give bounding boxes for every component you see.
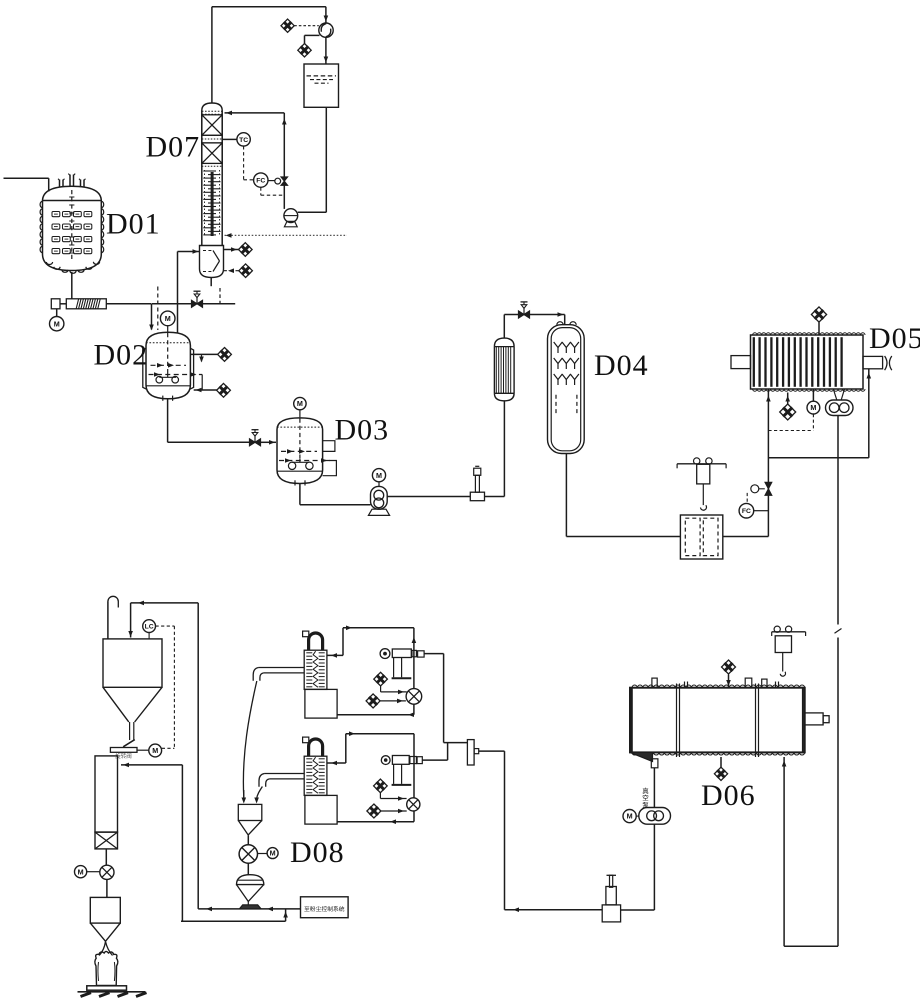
gear pump P2 <box>371 486 388 509</box>
wire: to product hopper <box>106 879 108 897</box>
wire: condenser to reflux tank <box>325 37 327 63</box>
inlet duct <box>259 667 305 669</box>
upper diamonds and blower <box>374 672 388 686</box>
wire: lower dipleg <box>257 787 263 799</box>
control valve CV1 <box>281 177 288 181</box>
diamond vent R2 (dashed) <box>224 270 239 272</box>
inlet duct <box>264 773 304 775</box>
wire: vapor inlet to reboiler <box>178 251 200 253</box>
dust control box <box>301 897 349 918</box>
pallet base <box>87 986 127 990</box>
wire: valve to collector <box>247 863 249 875</box>
wire: D02 to D03 with globe valve <box>168 441 250 443</box>
heat exchanger E1 (shell and tube) <box>494 338 514 347</box>
svg-text:泵: 泵 <box>642 801 649 809</box>
vacuum trap flask <box>607 874 617 876</box>
wire: upper unit gas loop <box>327 654 343 656</box>
svg-text:M: M <box>165 314 171 323</box>
wire: dotted feed line into D07 <box>225 234 348 236</box>
svg-text:至粉尘控制系统: 至粉尘控制系统 <box>304 905 345 913</box>
D08 small hopper <box>238 804 261 820</box>
wire: feed line into D01 <box>4 177 49 179</box>
wire: long return to silo <box>197 603 199 909</box>
flow meter FI <box>470 492 484 501</box>
svg-text:M: M <box>627 812 633 821</box>
reactor D01 vessel <box>43 186 102 270</box>
silo vent gooseneck <box>107 602 109 639</box>
D04 internals <box>557 348 559 354</box>
wire: hopper to X valve <box>247 836 249 845</box>
dryer D06 body <box>630 688 805 753</box>
reactor D03 vessel <box>277 418 323 484</box>
column D07 shell <box>202 103 222 111</box>
D06 top diamond <box>728 675 730 688</box>
wire: to heat exchanger E1 <box>485 496 505 498</box>
wire + diamond below condenser <box>305 34 320 36</box>
svg-text:D05: D05 <box>869 322 920 355</box>
wire: conveying return line <box>131 602 199 604</box>
D01 agitator shaft <box>71 190 73 259</box>
instrument TC <box>222 138 237 140</box>
svg-text:空: 空 <box>642 793 649 802</box>
wire: riser top return <box>121 764 182 766</box>
D07 mid band <box>202 135 222 143</box>
wire: filter box to D05 <box>723 536 769 538</box>
diamond vent R1 <box>224 249 239 251</box>
wire: reboiler drain line with globe valve <box>152 303 235 305</box>
D03 level dashes <box>281 450 317 452</box>
svg-text:LC: LC <box>145 624 154 631</box>
wire: feeder discharge to D02 <box>106 303 151 305</box>
collection box <box>305 689 337 718</box>
upper unit fan/motor <box>380 649 390 659</box>
finned cooler column <box>304 756 327 795</box>
svg-text:FC: FC <box>742 508 751 515</box>
reflux tank <box>304 64 339 107</box>
svg-text:M: M <box>54 319 60 328</box>
wire: D06 right bottom to blower line <box>783 757 785 946</box>
wire: D05 feed riser with control valve <box>767 390 769 537</box>
ground line <box>78 991 146 993</box>
wire: reflux to column top <box>283 113 285 177</box>
D05 motor M <box>812 389 814 401</box>
wire: D04 bottom outlet to filter box <box>565 454 567 537</box>
D08 collector pot <box>237 875 264 885</box>
D06 discharge chute <box>630 752 653 761</box>
svg-text:M: M <box>152 746 158 755</box>
svg-text:D01: D01 <box>106 208 161 241</box>
wire: tank to reflux pump <box>325 107 327 212</box>
wire: to rotary valve <box>105 849 107 865</box>
U-bend pipe on top <box>309 739 323 756</box>
reflux pump P1 <box>284 209 298 223</box>
product hopper <box>90 897 120 923</box>
wire: chute to vacuum pump <box>653 768 655 808</box>
wire: D02 bottom outlet <box>167 399 169 442</box>
D05 shell scallops <box>753 333 865 391</box>
svg-text:D03: D03 <box>335 414 390 447</box>
wire + diamond A on D02 <box>190 353 217 355</box>
wire: blower down line (long) <box>837 416 839 625</box>
wire: lower fan discharge <box>422 759 447 761</box>
svg-text:D06: D06 <box>701 779 756 812</box>
D02 jacket brackets <box>143 348 146 389</box>
collection box <box>305 795 337 824</box>
wire: pump discharge through control valve <box>283 185 285 209</box>
wire: upper dipleg curve <box>243 681 256 798</box>
reboiler of D07 <box>200 246 224 278</box>
D02 impeller <box>167 372 169 377</box>
D05 internal tubes <box>753 337 755 387</box>
reactor D02 vessel <box>146 332 190 399</box>
lower diamonds and blower <box>374 779 388 793</box>
D02 agitator motor M <box>160 311 175 326</box>
D01 top nozzles <box>59 180 61 188</box>
D05 bottom diamond <box>787 393 789 405</box>
D03 agitator motor M <box>294 397 306 409</box>
wire: lower unit gas loop <box>327 762 346 764</box>
product bag <box>99 942 112 956</box>
control valve CV2 <box>765 482 772 489</box>
evaporator D05 body <box>751 335 864 389</box>
diamond on condenser vent <box>294 25 319 27</box>
plate filter box <box>680 515 722 559</box>
U-bend pipe on top <box>309 633 323 650</box>
wire: recycle to right nozzle <box>768 457 868 459</box>
wire: upper fan discharge <box>424 653 444 655</box>
wire: vacuum pump to trap <box>653 824 655 910</box>
svg-text:M: M <box>78 867 84 876</box>
D07 packing X section 2 <box>202 143 222 164</box>
rotary valve (X circle) <box>100 865 114 879</box>
D06 top nozzles <box>652 678 657 688</box>
condenser C1 <box>319 23 333 37</box>
lower unit fan/motor <box>381 756 390 765</box>
diverter X-box <box>95 832 118 849</box>
svg-text:真: 真 <box>642 786 649 795</box>
D07 top dotted band <box>202 110 222 112</box>
wire: vacuum header down to trap <box>479 750 505 752</box>
wire: D03 bottom outlet <box>299 484 301 505</box>
svg-text:D07: D07 <box>146 131 201 164</box>
column D04 (jacketed) <box>548 325 585 454</box>
roots blower under D05 <box>833 389 837 400</box>
svg-text:M: M <box>376 471 382 480</box>
svg-text:D04: D04 <box>594 349 649 382</box>
D01 jacket scallops <box>40 201 104 273</box>
rotary feeder <box>123 740 135 747</box>
wire: to damper <box>444 742 468 744</box>
D06 internal baffles <box>676 684 678 758</box>
vacuum pump (roots) of D06 <box>623 810 636 823</box>
D07 packing X section 1 <box>202 115 222 136</box>
D08 rotary valve (X circle) <box>239 845 257 863</box>
wire: D01 bottom outlet <box>71 272 73 299</box>
wire: E1 top to valve to D04 <box>503 315 505 339</box>
inline damper <box>467 740 474 765</box>
wire + diamond B on D02 <box>194 389 217 391</box>
D03 impeller <box>299 459 301 462</box>
D03 jacket nozzle boxes <box>323 441 335 452</box>
svg-text:M: M <box>297 399 303 408</box>
silo <box>103 639 162 687</box>
D07 internal tray/coil section <box>211 172 214 236</box>
D06 right shaft stub <box>805 713 823 725</box>
D01 internal coils <box>52 212 60 217</box>
instrument FC2 <box>739 503 754 518</box>
hoist trolley over filter box <box>677 463 726 465</box>
wire: reboiler bottom stubs <box>210 278 212 287</box>
D02 liquid level dashes <box>151 364 187 366</box>
wire: from D02 top up to reboiler <box>177 252 179 334</box>
instrument FC <box>254 173 268 187</box>
D05 left nozzle <box>731 356 751 369</box>
svg-text:FC: FC <box>256 178 265 185</box>
D06 bottom diamond <box>720 757 722 767</box>
svg-text:D02: D02 <box>94 339 149 372</box>
svg-text:M: M <box>270 849 276 858</box>
hoist trolley right of D06 <box>772 631 806 633</box>
D05 right nozzle <box>863 356 883 368</box>
wire: dashed stub into D02 top <box>157 287 159 331</box>
screw feeder under D01 <box>51 299 60 309</box>
svg-text:D08: D08 <box>290 836 345 869</box>
svg-text:M: M <box>810 403 816 412</box>
riser column <box>95 756 118 832</box>
wire: D07 overhead vapor line <box>211 7 213 103</box>
instrument LC <box>143 620 156 633</box>
motor M of screw feeder <box>56 309 58 317</box>
svg-text:TC: TC <box>239 137 248 144</box>
wire: pump to flow meter <box>387 496 470 498</box>
D05 top diamond vent <box>818 322 820 335</box>
finned cooler column <box>304 650 327 689</box>
